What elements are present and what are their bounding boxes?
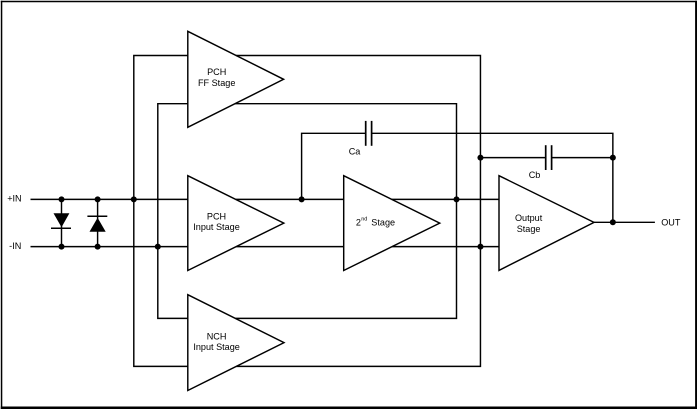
wire outer loop (FF top input / NCH bottom input net) [134,56,481,367]
svg-text:nd: nd [361,217,367,223]
wire OUT output line [594,221,655,223]
wire inner loop (FF bottom input / NCH top input net) [158,104,457,319]
junction dot inner loop left/-IN [155,244,161,250]
junction dot Ca riser/+IN [299,196,305,202]
diode D1 (input clamp, anode on +IN) [51,199,71,246]
wire Ca right / feedback vertical to OUT node [372,133,613,222]
svg-text:OUT: OUT [661,217,681,227]
amplifier U5 Output Stage [499,176,594,271]
amplifier U4 2nd Stage [344,176,440,271]
svg-text:Stage: Stage [371,218,395,228]
junction dot Cb right [610,155,616,161]
svg-text:NCH: NCH [207,331,227,341]
svg-text:Input Stage: Input Stage [193,222,240,232]
diode D2 (input clamp, anode on -IN) [87,199,107,246]
wire -IN rail [31,246,500,248]
svg-text:+IN: +IN [7,193,21,203]
amplifier U1 PCH FF Stage [188,31,284,127]
wire +IN rail [31,198,500,200]
svg-text:-IN: -IN [9,241,21,251]
junction dot Cb left [477,155,483,161]
junction dot outer loop right/-IN [477,244,483,250]
junction dot outer loop/+IN [131,196,137,202]
capacitor Ca [349,121,372,156]
wire Ca left riser [302,133,366,199]
svg-text:FF Stage: FF Stage [198,78,235,88]
svg-text:Ca: Ca [349,146,362,156]
svg-text:PCH: PCH [207,67,226,77]
junction dot inner loop right/+IN [454,196,460,202]
junction dot D1/+IN [59,196,65,202]
junction dot OUT node [610,219,616,225]
svg-text:Output: Output [515,213,543,223]
junction dot D1/-IN [59,244,65,250]
amplifier U2 PCH Input Stage [188,176,284,271]
svg-text:Input Stage: Input Stage [193,342,240,352]
junction dot D2/+IN [95,196,101,202]
svg-text:Stage: Stage [517,224,541,234]
amplifier U3 NCH Input Stage [188,295,284,391]
junction dot D2/-IN [95,244,101,250]
svg-text:PCH: PCH [207,211,226,221]
svg-text:Cb: Cb [529,170,541,180]
capacitor Cb [480,145,612,180]
